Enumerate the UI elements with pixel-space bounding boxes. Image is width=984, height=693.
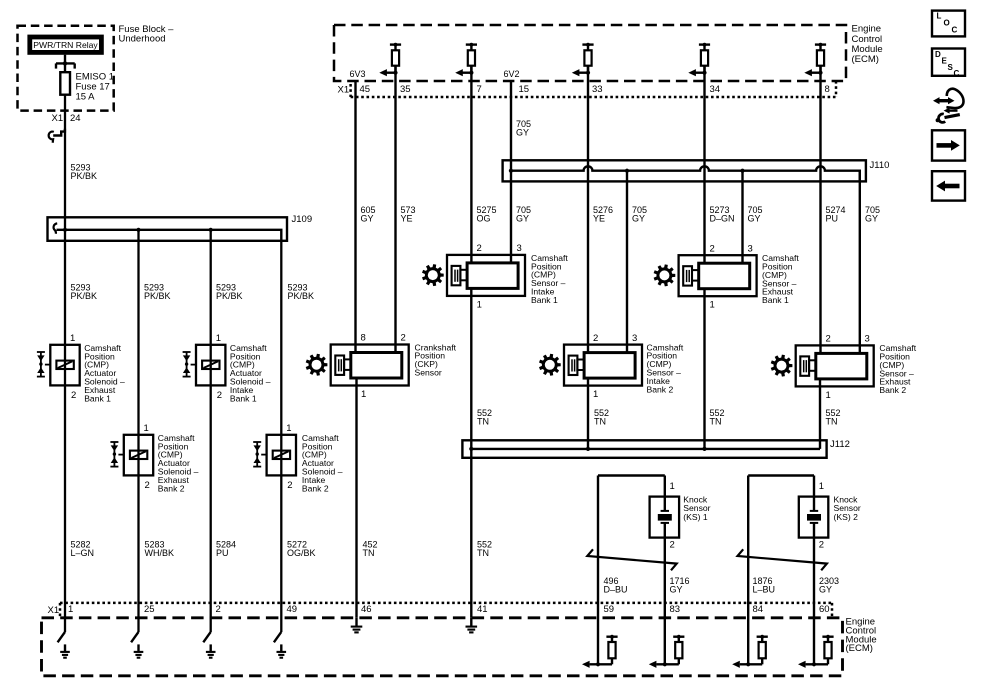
svg-text:1: 1: [361, 389, 366, 400]
svg-text:3: 3: [748, 243, 753, 254]
net label 2303 GY: [819, 576, 839, 595]
net label 1716 GY: [670, 576, 690, 595]
text CMP sensor intake bank2: [647, 342, 684, 394]
net label 552 TN: [477, 408, 492, 427]
net label 552 TN: [710, 408, 725, 427]
svg-text:Bank 2: Bank 2: [158, 483, 185, 493]
J112 junction wire 552TN pin41: [469, 447, 473, 451]
KS1 pin1 lead: [664, 476, 666, 497]
svg-text:GY: GY: [516, 213, 529, 223]
svg-text:1: 1: [477, 299, 482, 310]
J109 junction wire3: [209, 228, 213, 232]
pin 2 label: [217, 390, 222, 401]
svg-text:24: 24: [70, 113, 81, 124]
svg-text:2: 2: [145, 480, 150, 491]
svg-text:PU: PU: [216, 548, 229, 558]
pin 1 (bottom): [68, 604, 73, 615]
svg-text:(KS) 2: (KS) 2: [834, 512, 859, 522]
net label 5284 PU: [216, 539, 236, 558]
pin 1 label: [593, 389, 598, 400]
J110 junction at 705 GY feed: [509, 169, 513, 173]
svg-text:C: C: [952, 25, 958, 34]
svg-text:Sensor: Sensor: [415, 368, 442, 378]
pin 1 label: [144, 423, 149, 434]
svg-text:Bank 1: Bank 1: [230, 393, 257, 403]
svg-text:3: 3: [632, 333, 637, 344]
wire 552 TN (CMP EB1 pin1 to J112): [703, 289, 705, 449]
svg-text:2: 2: [593, 333, 598, 344]
resistor in ECM pin 84: [732, 635, 768, 668]
label X1 (bottom connector): [48, 605, 60, 616]
KS2 loop top wire: [748, 474, 814, 476]
pin 59 (bottom): [604, 604, 615, 615]
svg-text:GY: GY: [748, 213, 761, 223]
resistor in ECM pin 7: [455, 43, 477, 77]
net label 5282 L–GN: [71, 539, 95, 558]
svg-text:C: C: [954, 69, 960, 78]
svg-text:PK/BK: PK/BK: [288, 291, 315, 301]
svg-text:(ECM): (ECM): [846, 643, 873, 654]
wire 552 TN (CMP EB2 pin1 to J112 right end): [819, 379, 821, 449]
sensor CMP intake bank 1: [422, 255, 525, 296]
svg-text:YE: YE: [401, 213, 413, 223]
svg-text:YE: YE: [593, 213, 605, 223]
solenoid CMP actuator exhaust bank 1: [37, 345, 80, 386]
KS1 twisted pair marker: [587, 549, 676, 570]
ECM X1 top connector dotted line: [351, 81, 836, 97]
svg-text:PK/BK: PK/BK: [71, 291, 98, 301]
svg-text:2: 2: [710, 243, 715, 254]
pin 2 label: [593, 333, 598, 344]
svg-text:X1: X1: [48, 605, 60, 616]
net label 5283 WH/BK: [145, 539, 175, 558]
label J109: [292, 214, 313, 225]
label J112: [830, 439, 850, 450]
pin 15: [519, 84, 530, 95]
svg-text:TN: TN: [363, 548, 375, 558]
net label 705 GY: [516, 205, 531, 224]
wire 5275 OG (pin 7 to CMP IB1 pin 2): [470, 66, 472, 263]
net label 5275 OG: [477, 205, 497, 224]
pin 83 (bottom): [670, 604, 681, 615]
sensor CKP (crankshaft position): [306, 345, 409, 386]
J109 junction wire2: [136, 228, 140, 232]
J109 junction wire1: [63, 228, 67, 232]
pin 60 (bottom): [819, 604, 830, 615]
pin 2 label: [145, 480, 150, 491]
svg-text:Bank 1: Bank 1: [762, 295, 789, 305]
J110 junction to CMP IB2 pin3: [625, 169, 629, 173]
svg-text:49: 49: [287, 604, 298, 615]
svg-text:GY: GY: [670, 584, 683, 594]
svg-text:46: 46: [361, 604, 372, 615]
svg-text:2: 2: [216, 604, 221, 615]
svg-text:83: 83: [670, 604, 681, 615]
svg-text:15: 15: [519, 84, 530, 95]
text knock sensor KS1: [683, 495, 710, 522]
splice J109 box: [48, 217, 288, 241]
label 705 GY above J110: [516, 119, 531, 137]
text CMP actuator solenoid exhaust bank2: [158, 433, 199, 493]
label 5293 PK/BK: [144, 282, 171, 301]
pin 33: [592, 84, 603, 95]
svg-text:GY: GY: [819, 584, 832, 594]
pin 1 label: [710, 300, 715, 311]
splice J109 hook (left end): [54, 223, 58, 233]
icon DESC box: [932, 49, 965, 78]
KS1 pin 1 label: [670, 481, 675, 492]
knock sensor KS1 box and element: [650, 497, 680, 538]
sensor CMP intake bank 2: [539, 345, 642, 386]
solenoid CMP actuator exhaust bank 2: [110, 435, 153, 476]
J112 junction CMP EB1: [702, 447, 706, 451]
svg-text:1: 1: [670, 481, 675, 492]
J110 junction to CMP EB1 pin3: [740, 169, 744, 173]
svg-text:25: 25: [144, 604, 155, 615]
svg-text:GY: GY: [865, 213, 878, 223]
svg-text:45: 45: [360, 84, 371, 95]
solenoid CMP actuator intake bank 2: [253, 435, 296, 476]
solenoid CMP actuator intake bank 1: [183, 345, 226, 386]
text CMP sensor exhaust bank1: [762, 253, 799, 305]
fuse F17 EMISO 1 15A: [60, 72, 70, 95]
net label 552 TN: [477, 539, 492, 558]
svg-text:2: 2: [71, 390, 76, 401]
wire 552 TN (CMP IB1 pin1 through J112 to pin 41): [470, 289, 472, 618]
net label 705 GY: [865, 205, 880, 224]
net label 5272 OG/BK: [287, 539, 316, 558]
wire relay to fuse: [64, 55, 66, 72]
net label 552 TN: [826, 408, 841, 427]
resistor in ECM pin 83: [649, 635, 685, 668]
pin 1 label: [216, 333, 221, 344]
pin 45: [360, 84, 371, 95]
resistor in ECM pin 33: [572, 43, 594, 77]
ECM top label: [852, 24, 883, 65]
pin 3 label: [748, 243, 753, 254]
svg-text:PK/BK: PK/BK: [216, 291, 243, 301]
icon LOC box: [932, 11, 965, 37]
wire 5274 PU (pin 8 to CMP EB2 pin 2): [819, 66, 821, 354]
splice J110 box: [503, 160, 866, 181]
icon next-page right arrow: [932, 130, 965, 160]
resistor in ECM pin 34: [688, 43, 710, 77]
svg-text:1: 1: [710, 300, 715, 311]
svg-text:GY: GY: [516, 127, 529, 137]
svg-text:6V2: 6V2: [504, 69, 520, 79]
splice J110 bus bar: [511, 166, 860, 181]
label 5293 PK/BK: [216, 282, 243, 301]
pin 2 label: [401, 333, 406, 344]
ECM top dashed enclosure: [334, 25, 846, 81]
svg-text:33: 33: [592, 84, 603, 95]
wire 605 GY (pin 45 to CKP pin 8): [354, 81, 356, 353]
svg-text:2: 2: [477, 243, 482, 254]
pin 1 label: [70, 333, 75, 344]
net label 552 TN: [594, 408, 609, 427]
label J110: [870, 160, 890, 171]
net label 573 YE: [401, 205, 416, 224]
svg-text:1: 1: [286, 423, 291, 434]
svg-text:PK/BK: PK/BK: [71, 171, 98, 181]
svg-text:GY: GY: [361, 213, 374, 223]
net label 5276 YE: [593, 205, 613, 224]
svg-text:O: O: [944, 18, 950, 27]
pin 2 label: [826, 334, 831, 345]
svg-text:X1: X1: [52, 113, 64, 124]
svg-text:2: 2: [819, 540, 824, 551]
svg-text:Bank 1: Bank 1: [531, 295, 558, 305]
pin 2 label: [287, 480, 292, 491]
resistor in ECM pin 59: [582, 635, 618, 668]
wire 5276 YE (pin 33 to CMP IB2 pin 2): [587, 66, 589, 353]
KS1 left wire 496 D-BU: [597, 476, 599, 665]
KS2 pin1 lead: [813, 476, 815, 497]
ECM bottom dashed enclosure: [42, 618, 843, 676]
wire 705 GY (J110 to CMP EB1 pin 3): [741, 171, 743, 264]
pin 1 label: [361, 389, 366, 400]
resistor in ECM pin 35: [379, 43, 401, 77]
text CMP actuator solenoid intake bank1: [230, 343, 271, 403]
icon prev-page left arrow: [932, 171, 965, 200]
svg-text:J110: J110: [870, 160, 890, 171]
switch to ground pin25: [131, 632, 143, 658]
svg-text:TN: TN: [826, 416, 838, 426]
svg-text:2: 2: [287, 480, 292, 491]
svg-text:(KS) 1: (KS) 1: [683, 512, 708, 522]
ground at pin 46: [351, 618, 363, 633]
wire 5273 D-GN (pin 34 to CMP EB1 pin 2): [703, 66, 705, 264]
net label 452 TN: [363, 539, 378, 558]
svg-text:GY: GY: [632, 213, 645, 223]
switch to ground pin1: [58, 632, 70, 658]
svg-text:Underhood: Underhood: [119, 34, 166, 45]
text CMP sensor exhaust bank2: [879, 343, 916, 395]
svg-text:D: D: [935, 50, 941, 59]
svg-text:35: 35: [400, 84, 411, 95]
ECM X1 bottom connector dotted line: [60, 603, 832, 618]
wire 705 GY (J110 to CMP IB2 pin 3): [626, 171, 628, 353]
ground at pin 41: [466, 618, 478, 633]
svg-text:PWR/TRN Relay: PWR/TRN Relay: [33, 40, 98, 50]
net label 5273 D–GN: [710, 205, 735, 224]
svg-text:L–GN: L–GN: [71, 548, 95, 558]
splice J109 bus bar: [57, 230, 282, 241]
inline connector hook below X1 24: [49, 129, 65, 143]
svg-text:Bank 2: Bank 2: [879, 385, 906, 395]
net label 605 GY: [361, 205, 376, 224]
pin 3 label: [865, 334, 870, 345]
svg-text:2: 2: [217, 390, 222, 401]
wire 5293 PK/BK branch 3: [210, 230, 212, 632]
net label 5274 PU: [826, 205, 846, 224]
resistor in ECM pin 60: [798, 635, 834, 668]
pin 2 label: [71, 390, 76, 401]
pin 25 (bottom): [144, 604, 155, 615]
pin 8: [825, 84, 830, 95]
svg-text:1: 1: [593, 389, 598, 400]
text CMP actuator solenoid intake bank2: [302, 433, 343, 493]
fuse holder clips: [56, 61, 75, 68]
text CMP actuator solenoid exhaust bank1: [84, 343, 125, 403]
KS2 twisted pair marker: [738, 549, 827, 570]
pin 1 label: [826, 390, 831, 401]
svg-text:D–GN: D–GN: [710, 213, 735, 223]
pin 35: [400, 84, 411, 95]
svg-text:D–BU: D–BU: [604, 584, 628, 594]
svg-text:Bank 1: Bank 1: [84, 393, 111, 403]
wire 5293 PK/BK branch 2: [137, 230, 139, 632]
text knock sensor KS2: [834, 495, 861, 522]
KS2 pin 1 label: [819, 481, 824, 492]
svg-text:1: 1: [144, 423, 149, 434]
wire 5293 PK/BK from fuse down: [64, 95, 66, 632]
svg-text:2: 2: [401, 333, 406, 344]
svg-text:2: 2: [826, 334, 831, 345]
wire 573 YE (pin 35 to CKP pin 2): [394, 66, 396, 353]
svg-text:59: 59: [604, 604, 615, 615]
svg-text:8: 8: [361, 333, 366, 344]
svg-text:(ECM): (ECM): [852, 54, 879, 65]
svg-text:1: 1: [216, 333, 221, 344]
svg-text:J112: J112: [830, 439, 850, 450]
label 5293 PK/BK: [71, 282, 98, 301]
svg-text:OG: OG: [477, 213, 491, 223]
pin 84 (bottom): [753, 604, 764, 615]
svg-text:6V3: 6V3: [350, 69, 366, 79]
svg-text:7: 7: [477, 84, 482, 95]
fuse block underhood dashed enclosure: [18, 26, 114, 111]
KS2 pin 2 label: [819, 540, 824, 551]
pin 2 label: [710, 243, 715, 254]
net label 1876 L–BU: [753, 576, 776, 595]
net label 705 GY: [748, 205, 763, 224]
svg-text:Bank 2: Bank 2: [302, 483, 329, 493]
svg-text:L–BU: L–BU: [753, 584, 776, 594]
KS2 left wire 1876 L-BU: [747, 476, 749, 665]
svg-text:84: 84: [753, 604, 764, 615]
pin 2 label: [477, 243, 482, 254]
svg-text:L: L: [937, 11, 942, 20]
svg-text:2: 2: [670, 540, 675, 551]
svg-text:60: 60: [819, 604, 830, 615]
svg-text:TN: TN: [594, 416, 606, 426]
svg-text:TN: TN: [477, 416, 489, 426]
wire 705 GY (J110 right end to CMP EB2 pin 3): [859, 171, 861, 354]
svg-text:3: 3: [865, 334, 870, 345]
label 5293 PK/BK: [288, 282, 315, 301]
svg-text:15 A: 15 A: [76, 91, 96, 102]
svg-text:OG/BK: OG/BK: [287, 548, 316, 558]
svg-text:3: 3: [517, 243, 522, 254]
pin 49 (bottom): [287, 604, 298, 615]
svg-text:41: 41: [477, 604, 488, 615]
KS1 pin2 wire 1716 GY: [664, 538, 666, 665]
svg-text:1: 1: [68, 604, 73, 615]
pin 7: [477, 84, 482, 95]
pin 41 (bottom): [477, 604, 488, 615]
pin 3 label: [517, 243, 522, 254]
svg-text:34: 34: [710, 84, 721, 95]
text CKP sensor: [415, 342, 457, 377]
switch to ground pin2: [203, 632, 215, 658]
svg-text:TN: TN: [477, 548, 489, 558]
net label 705 GY: [632, 205, 647, 224]
pin 3 label: [632, 333, 637, 344]
sensor CMP exhaust bank 2: [771, 345, 874, 386]
svg-text:8: 8: [825, 84, 830, 95]
fuse label: [76, 72, 115, 103]
pin 1 label: [477, 299, 482, 310]
pin 34: [710, 84, 721, 95]
resistor in ECM pin 8: [804, 43, 826, 77]
svg-text:PU: PU: [826, 213, 839, 223]
svg-text:TN: TN: [710, 416, 722, 426]
label 6V2: [504, 69, 520, 79]
sensor CMP exhaust bank 1: [654, 255, 757, 296]
svg-text:X1: X1: [338, 85, 350, 96]
svg-text:WH/BK: WH/BK: [145, 548, 175, 558]
wire 5293 PK/BK branch 4: [280, 241, 282, 632]
text CMP sensor intake bank1: [531, 253, 568, 305]
svg-text:1: 1: [70, 333, 75, 344]
relay PWR/TRN box: [30, 37, 102, 52]
label 6V3: [350, 69, 366, 79]
fuse block label: [119, 24, 175, 45]
pin 8 label: [361, 333, 366, 344]
icon harness routing (arrows and wrench): [933, 89, 964, 123]
splice J112 bus bar: [471, 448, 820, 450]
pin 1 label: [286, 423, 291, 434]
KS1 loop top wire: [598, 474, 665, 476]
wire 705 GY (pin 15 through J110 to CMP IB1 pin 3): [510, 81, 512, 263]
KS2 pin2 wire 2303 GY: [813, 538, 815, 665]
svg-text:1: 1: [826, 390, 831, 401]
J112 junction CMP IB2: [586, 447, 590, 451]
ECM bottom label: [846, 617, 877, 654]
wire 552 TN (CMP IB2 pin1 to J112): [587, 378, 589, 449]
knock sensor KS2 box and element: [799, 497, 829, 538]
label 5293 PK/BK (top): [71, 162, 98, 181]
pin 46 (bottom): [361, 604, 372, 615]
connector X1 pin 24 label: [52, 113, 81, 124]
svg-text:J109: J109: [292, 214, 313, 225]
switch to ground pin49: [274, 632, 286, 658]
splice J112 box: [462, 440, 826, 458]
KS1 pin 2 label: [670, 540, 675, 551]
label X1 (top connector): [338, 85, 350, 96]
svg-text:Bank 2: Bank 2: [647, 384, 674, 394]
svg-text:PK/BK: PK/BK: [144, 291, 171, 301]
pin 2 (bottom): [216, 604, 221, 615]
net label 496 D–BU: [604, 576, 628, 595]
wire 452 TN (CKP pin1 to ECM pin 46): [355, 378, 357, 618]
svg-text:1: 1: [819, 481, 824, 492]
